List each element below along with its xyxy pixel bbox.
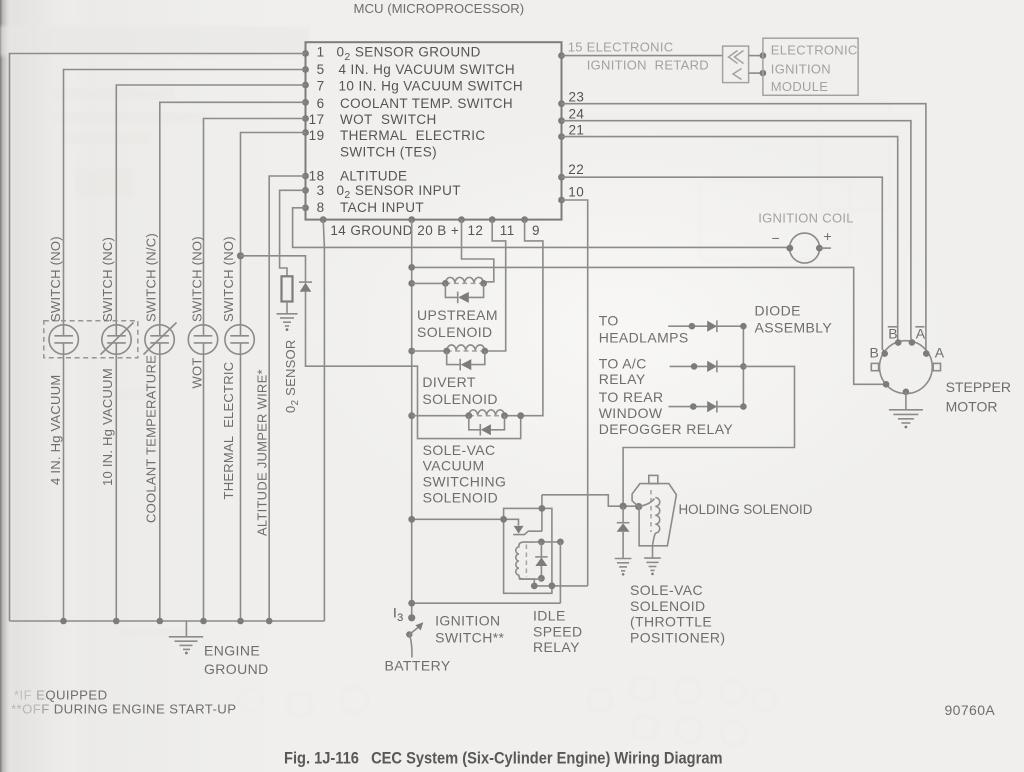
svg-text:DIVERT: DIVERT — [422, 374, 476, 390]
svg-text:18: 18 — [309, 168, 325, 183]
TO REAR WINDOW DEFOGGER RELAY label — [599, 389, 734, 437]
svg-text:SWITCH (TES): SWITCH (TES) — [340, 144, 437, 159]
svg-text:POSITIONER): POSITIONER) — [630, 629, 725, 645]
headlamps diode row wire — [668, 325, 743, 327]
wire pin8 TACH INPUT to ignition coil negative — [293, 208, 790, 248]
wire pin10 down to idle speed relay bottom — [562, 200, 588, 586]
svg-text:HEADLAMPS: HEADLAMPS — [599, 329, 689, 345]
svg-text:10 IN. Hg VACUUM: 10 IN. Hg VACUUM — [100, 368, 115, 486]
wire B+ branch to stepper motor lower-left terminal — [412, 267, 883, 384]
wire B+ lower branch to relay coil top — [412, 542, 561, 603]
svg-text:A: A — [935, 345, 945, 361]
svg-text:GROUND: GROUND — [204, 661, 269, 677]
engine ground bus wire — [10, 620, 325, 622]
A/C relay diode row wire — [670, 365, 744, 367]
svg-text:SOLENOID: SOLENOID — [417, 324, 493, 340]
svg-text:TO: TO — [599, 313, 619, 329]
MCU left pin dots 1,5,7,6,17,19,18,3,8 — [302, 50, 309, 211]
wire S4 bottom to ground bus — [203, 343, 205, 621]
ground symbol (O2 sensor resistor) — [277, 314, 298, 331]
scan bleed-through ghost artifacts — [55, 88, 890, 745]
svg-text:15 ELECTRONIC: 15 ELECTRONIC — [568, 40, 674, 55]
svg-text:*IF EQUIPPED: *IF EQUIPPED — [14, 688, 108, 703]
holding solenoid L4 body — [632, 475, 676, 545]
wire S3 bottom to ground bus — [159, 343, 161, 621]
wire pin24 to stepper motor terminal A-bar — [562, 121, 912, 341]
svg-text:RELAY: RELAY — [533, 639, 580, 655]
svg-text:1: 1 — [317, 45, 325, 60]
wire resistor to ground — [286, 302, 288, 314]
svg-text:BATTERY: BATTERY — [385, 658, 451, 674]
svg-text:90760A: 90760A — [945, 702, 996, 718]
MCU pin 6 label: COOLANT TEMP. SWITCH — [317, 96, 513, 111]
MCU bottom pin dots 14,20,12,11,9 — [320, 216, 528, 223]
svg-text:IGNITION COIL: IGNITION COIL — [758, 211, 854, 226]
MCU right pin number labels 15,23,24,21,22,10 — [568, 40, 709, 200]
svg-text:IDLE: IDLE — [533, 608, 566, 624]
svg-text:SPEED: SPEED — [533, 623, 582, 639]
relay K1 contact (arrow onto pad) — [513, 526, 542, 535]
svg-text:−: − — [772, 230, 781, 246]
MCU pin 18 label: ALTITUDE — [309, 168, 408, 183]
svg-text:ENGINE: ENGINE — [204, 642, 260, 658]
MCU (microprocessor) U1 box — [306, 1, 562, 220]
diode D1 (O2 sensor clamp, cathode up) — [299, 282, 312, 292]
svg-text:COOLANT TEMP. SWITCH: COOLANT TEMP. SWITCH — [340, 96, 513, 111]
svg-text:IGNITION: IGNITION — [771, 62, 831, 77]
wire pin1 to left edge and down to ground bus — [10, 54, 306, 622]
svg-text:21: 21 — [569, 122, 585, 137]
wire pin21 to stepper motor terminal B-bar — [562, 137, 898, 341]
svg-text:ALTITUDE: ALTITUDE — [340, 168, 407, 183]
wire relay contact feed from holding solenoid net — [542, 495, 639, 506]
diode D5 (holding solenoid clamp, cathode up) — [617, 506, 630, 558]
svg-text:STEPPER: STEPPER — [946, 379, 1011, 395]
relay coil bottom wire — [519, 578, 542, 580]
switch S2: 10 IN. Hg vacuum switch (NC) with slash — [101, 323, 134, 355]
svg-text:TO REAR: TO REAR — [599, 389, 664, 405]
svg-text:19: 19 — [309, 128, 325, 143]
divert solenoid flyback loop with diode D8 — [447, 351, 485, 370]
svg-text:8: 8 — [317, 200, 325, 215]
svg-text:ASSEMBLY: ASSEMBLY — [755, 319, 833, 335]
wire connector to module pin (upper) — [749, 55, 763, 57]
SOLE-VAC SOLENOID (THROTTLE POSITIONER) label — [630, 582, 725, 645]
svg-text:VACUUM: VACUUM — [423, 458, 485, 474]
svg-text:HOLDING SOLENOID: HOLDING SOLENOID — [679, 502, 813, 517]
svg-text:SOLENOID: SOLENOID — [630, 598, 706, 614]
svg-text:SWITCH (N/C): SWITCH (N/C) — [144, 233, 159, 322]
TO HEADLAMPS label — [599, 313, 689, 346]
wire pin3 O2 sensor input to resistor — [280, 190, 306, 276]
wire B+ branch to relay contact arm — [412, 519, 519, 525]
upstream solenoid L1 coil — [408, 277, 487, 286]
wire S5 bottom to ground bus — [240, 343, 242, 621]
svg-text:23: 23 — [569, 90, 585, 105]
ignition switch SW1 — [406, 614, 423, 657]
svg-text:SWITCH (NO): SWITCH (NO) — [48, 236, 63, 322]
ground symbol (holding solenoid) — [644, 558, 661, 575]
wire pin7 down to 10IN vacuum switch S2 — [116, 85, 305, 336]
wire stepper motor bottom to ground — [905, 392, 907, 410]
MCU pin 19 label: THERMAL ELECTRIC SWITCH (TES) — [309, 128, 486, 159]
svg-text:IGNITION RETARD: IGNITION RETARD — [587, 57, 709, 72]
sole-vac switching solenoid flyback loop with diode D9 — [469, 416, 505, 436]
svg-text:10: 10 — [568, 185, 584, 200]
svg-text:3: 3 — [317, 183, 325, 198]
svg-text:MCU (MICROPROCESSOR): MCU (MICROPROCESSOR) — [354, 1, 525, 16]
MCU pin 1 label: O2 SENSOR GROUND — [317, 45, 481, 63]
wire pin20 B+ rail down to ignition switch — [411, 220, 413, 618]
relay K1 coil — [516, 542, 536, 579]
svg-text:SOLE-VAC: SOLE-VAC — [423, 442, 496, 458]
idle speed relay K1 box — [504, 508, 552, 593]
diode D6 (idle speed relay clamp, cathode up) — [535, 542, 547, 582]
svg-text:11: 11 — [500, 223, 515, 238]
svg-text:TO A/C: TO A/C — [599, 356, 647, 372]
svg-text:SWITCH (NO): SWITCH (NO) — [190, 236, 205, 322]
switch S5: thermal electric switch (NO) — [225, 325, 254, 354]
svg-text:WOT: WOT — [190, 357, 205, 388]
svg-text:17: 17 — [309, 112, 325, 127]
wire pin22 to stepper motor terminal B — [562, 177, 885, 352]
MCU pin 17 label: WOT SWITCH — [309, 112, 437, 127]
svg-text:SWITCH (NC): SWITCH (NC) — [100, 237, 115, 322]
stepper motor terminal labels B, B-bar, A-bar, A — [870, 326, 945, 361]
svg-text:DEFOGGER RELAY: DEFOGGER RELAY — [599, 421, 734, 437]
svg-text:22: 22 — [568, 162, 584, 177]
svg-text:9: 9 — [532, 223, 540, 238]
stub from coil bottom to relay bottom wire — [533, 579, 535, 586]
svg-text:B: B — [870, 345, 880, 361]
svg-text:SOLE-VAC: SOLE-VAC — [630, 582, 703, 598]
switch S3: coolant temperature switch (N/C) with slash — [144, 323, 177, 355]
svg-text:IGNITION: IGNITION — [435, 612, 500, 628]
wire pin14 GROUND down to engine ground bus — [323, 220, 324, 621]
svg-text:24: 24 — [569, 106, 585, 121]
relay coil top wire to junctions — [535, 541, 560, 543]
wire diode bus to holding solenoid feed — [623, 366, 794, 506]
svg-text:4 IN. Hg VACUUM: 4 IN. Hg VACUUM — [48, 375, 63, 485]
wire pin11 to divert solenoid — [485, 220, 506, 351]
svg-text:7: 7 — [317, 78, 325, 93]
wire pin17 down to WOT switch S4 — [204, 119, 306, 336]
wire S1 bottom to ground bus — [63, 343, 65, 621]
MCU bottom pin labels 14 GROUND / 20 B+ / 12 / 11 / 9 — [330, 223, 540, 238]
ENGINE GROUND label — [204, 642, 269, 677]
wire pin19 down to thermal electric switch S5 — [241, 133, 306, 336]
defogger relay diode row wire — [669, 406, 744, 408]
svg-text:COOLANT TEMPERATURE: COOLANT TEMPERATURE — [144, 355, 159, 523]
svg-text:WOT SWITCH: WOT SWITCH — [340, 112, 437, 127]
svg-text:14 GROUND: 14 GROUND — [330, 223, 412, 238]
svg-text:THERMAL ELECTRIC: THERMAL ELECTRIC — [221, 362, 236, 500]
dashed box around vacuum switches S1 S2 (if equipped) — [44, 321, 138, 358]
node junction on thermal electric column — [237, 252, 244, 259]
MCU pin 7 label: 10 IN. Hg VACUUM SWITCH — [317, 78, 523, 93]
ground symbol (holding solenoid diode) — [615, 559, 632, 576]
wire pin6 down to coolant temp switch S3 — [160, 102, 306, 335]
TO A/C RELAY label — [599, 356, 647, 388]
wire pin9 to sole-vac switching solenoid — [505, 220, 543, 416]
wire pin5 down to 4IN vacuum switch S1 — [64, 70, 306, 336]
node holding solenoid junctions — [620, 503, 627, 510]
svg-text:ALTITUDE JUMPER WIRE*: ALTITUDE JUMPER WIRE* — [255, 369, 270, 536]
MCU pin 3 label: O2 SENSOR INPUT — [317, 183, 461, 201]
svg-text:A: A — [916, 326, 926, 342]
UPSTREAM SOLENOID label — [417, 307, 498, 340]
ground bus junction dots — [60, 618, 272, 625]
svg-text:MOTOR: MOTOR — [946, 399, 998, 415]
diode D4 (to rear window defogger relay) — [707, 401, 717, 413]
diode assembly bus wire — [742, 326, 744, 406]
svg-text:B: B — [888, 326, 898, 342]
svg-text:DIODE: DIODE — [755, 303, 801, 319]
IDLE SPEED RELAY label — [533, 608, 582, 655]
ground symbol (stepper motor) — [889, 410, 923, 429]
wire node F to diode D1 — [241, 256, 306, 282]
svg-text:5: 5 — [317, 62, 325, 77]
upstream solenoid flyback loop with diode D7 — [445, 283, 483, 303]
switch S1: 4 IN. Hg vacuum switch (NO) — [49, 325, 78, 354]
svg-text:SWITCHING: SWITCHING — [423, 473, 507, 489]
ignition coil T1 — [758, 211, 854, 264]
switch S4: WOT switch (NO) — [188, 325, 217, 354]
svg-text:WINDOW: WINDOW — [599, 405, 663, 421]
resistor R1 (O2 sensor) — [282, 276, 293, 301]
wire pin15 to connector — [562, 55, 723, 57]
svg-text:RELAY: RELAY — [599, 371, 646, 387]
svg-text:ELECTRONIC: ELECTRONIC — [771, 43, 858, 58]
MCU pin 5 label: 4 IN. Hg VACUUM SWITCH — [317, 62, 515, 77]
diode assembly label — [755, 303, 833, 336]
STEPPER MOTOR label — [946, 379, 1011, 415]
svg-text:+: + — [824, 228, 833, 244]
wire pin18 altitude jumper down to ground bus — [269, 176, 305, 621]
wire holding solenoid to ground — [652, 546, 654, 558]
svg-text:10 IN. Hg VACUUM SWITCH: 10 IN. Hg VACUUM SWITCH — [339, 78, 523, 93]
stepper motor M1 — [871, 339, 940, 395]
svg-text:SOLENOID: SOLENOID — [422, 391, 498, 407]
relay bottom wire to pin10 column — [534, 585, 587, 587]
wire pin12 to upstream solenoid — [462, 220, 494, 282]
electronic ignition module box — [763, 38, 858, 95]
wire D1 down, across and up to sole-vac switching solenoid net — [306, 292, 521, 439]
diode D3 (to A/C relay) — [707, 361, 717, 373]
sole-vac vacuum switching solenoid L3 coil — [408, 410, 524, 419]
MCU pin 8 label: TACH INPUT — [317, 200, 424, 215]
svg-text:THERMAL ELECTRIC: THERMAL ELECTRIC — [340, 128, 486, 143]
divert solenoid L2 coil — [408, 345, 488, 354]
engine ground symbol — [169, 621, 203, 654]
svg-text:SWITCH**: SWITCH** — [435, 629, 504, 645]
svg-text:12: 12 — [468, 223, 484, 238]
svg-text:20 B +: 20 B + — [417, 223, 459, 238]
svg-text:6: 6 — [317, 96, 325, 111]
svg-text:SWITCH (NO): SWITCH (NO) — [221, 236, 236, 322]
wire S2 bottom to ground bus — [115, 343, 117, 621]
svg-text:SOLENOID: SOLENOID — [423, 489, 499, 505]
svg-text:TACH INPUT: TACH INPUT — [340, 200, 424, 215]
diode D2 (to headlamps) — [707, 320, 717, 332]
wire down to idle speed relay box top — [541, 495, 543, 532]
svg-text:**OFF DURING ENGINE START-UP: **OFF DURING ENGINE START-UP — [11, 702, 236, 717]
svg-text:Fig. 1J-116 CEC System (Six-: Fig. 1J-116 CEC System (Six-Cylinder Eng… — [284, 750, 722, 768]
svg-text:4 IN. Hg VACUUM SWITCH: 4 IN. Hg VACUUM SWITCH — [339, 62, 516, 77]
SOLE-VAC VACUUM SWITCHING SOLENOID label — [423, 442, 507, 505]
node B+ branch junction — [408, 264, 415, 271]
wire pin23 to stepper motor terminal A — [562, 104, 927, 352]
connector J1 (electronic ignition retard) — [723, 46, 749, 83]
wire connector to module pin (lower) — [749, 72, 763, 74]
svg-text:(THROTTLE: (THROTTLE — [630, 614, 712, 630]
svg-text:MODULE: MODULE — [771, 79, 828, 94]
IGNITION SWITCH** label — [435, 612, 504, 645]
MCU right pin dots 15,23,24,21,22,10 — [558, 52, 565, 203]
svg-text:UPSTREAM: UPSTREAM — [417, 307, 498, 323]
DIVERT SOLENOID label — [422, 374, 498, 407]
